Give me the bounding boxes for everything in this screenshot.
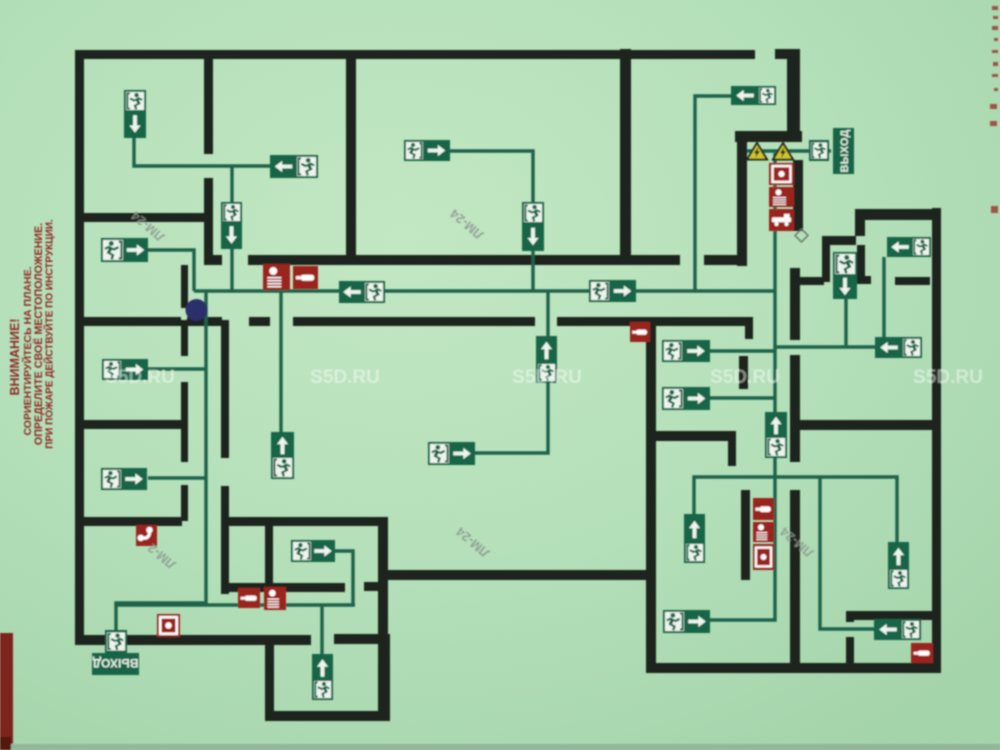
route to sign room3 [148,367,206,370]
evacuation sign left S25 [874,619,921,640]
wall: corridor top wall a [204,255,222,265]
evacuation sign up S6 [536,336,557,383]
wall: room3 bottom wall [80,420,182,429]
route lower right corridor [694,477,897,542]
wall: thin partition x181 b [181,320,188,356]
adjacent plan edge left [0,633,13,750]
wall: wall V2 d [790,490,800,665]
exit door sign top-right [809,140,829,161]
wall: corridor top wall c [704,255,740,265]
wall: corridor right wall lower [221,486,229,594]
wall: lower corridor bottom wall b [364,582,380,591]
wall: thin partition x181 a [181,265,188,308]
wall: wall V2 a [793,160,803,231]
evacuation sign right S14b [102,359,148,380]
wall: corridor right wall upper [221,320,229,458]
wall: bottom room bottom wall [265,711,390,721]
fire extinguisher icon D2 [238,588,260,608]
evacuation sign left S24 [875,337,922,358]
wall: right big wall y420 [796,420,934,430]
wall: corridor top wall b [248,255,680,265]
bottom photo edge [0,744,1000,750]
route bottom-left corridor [116,603,355,606]
wall: room1 right wall lower [204,178,213,265]
fire call point icon D2 [264,587,286,610]
evacuation sign down S3 [522,202,544,251]
you-are-here marker [186,299,208,321]
evacuation sign right S19 [663,610,710,633]
fire extinguisher icon B2 [293,266,318,289]
wall: lower corridor top wall [225,517,385,526]
attention instruction text [8,219,56,449]
route small room sign [335,551,353,605]
route branch x820 [820,477,874,629]
wall: bottom-right room stub lower [846,637,854,664]
route from sign A1 [134,137,272,166]
route branch bottom room [320,605,323,655]
wall: big vertical wall x380 [378,517,388,721]
route upper right sign down [882,257,885,338]
evacuation sign right S13 [589,280,636,302]
evacuation sign left S21 [339,281,385,303]
watermark row [105,367,983,388]
wall: room1 bottom wall [84,213,204,222]
evacuation sign right S12 [404,140,450,161]
evacuation sign right S11 [101,238,148,262]
evacuation sign down S1 [124,90,146,138]
wall: top divider wall x620 [620,49,631,265]
wall: wall V1 b [739,356,748,389]
wall: stair right wall [787,49,800,137]
evacuation sign up S8 [684,514,705,563]
wall: outer bottom-left wall [75,635,311,645]
fire extinguisher icon C4 [753,498,774,520]
wall: top-right room top wall [855,209,941,220]
wall: room1 right wall upper [204,59,213,154]
wall: small room left wall x270 [265,522,273,585]
wall: right room bottom wall y431 [656,431,736,441]
evacuation sign right S14 [101,468,147,490]
wall: bottom room left wall [265,640,274,721]
wall: wall V1 c [741,490,750,580]
wall: thin partition x181 d [181,485,188,521]
evacuation sign up S7 [765,412,787,458]
wall: alcove left wall [822,245,830,282]
wall: outer right wall [932,208,941,673]
route branch x281 [279,292,282,433]
route top-right room [695,96,731,291]
wall: right room wall corner [728,436,736,466]
wall: room4 bottom wall [84,517,182,526]
wall: lower corridor bottom wall a [221,583,345,592]
wall: top divider wall x346 [346,50,356,265]
fire hose reel icon C4 [753,544,774,570]
fire call point icon [263,264,290,290]
warning triangle 1 [747,143,767,160]
wall: outer top wall [75,50,755,59]
fire call point icon C4 [753,522,774,542]
wall: room2 bottom wall [84,317,181,326]
wall: wall V1 a [737,131,747,266]
wall: outer top wall piece right [775,49,791,59]
wall: bottom room right wall [380,634,390,721]
wall: bottom-right room top wall [846,611,934,620]
evacuation sign left S20 [270,155,318,178]
evacuation sign up S10 [312,654,333,700]
wall: alcove bottom-left wall [796,277,824,285]
evacuation sign right S17 [662,340,710,362]
route sign y351 [710,349,775,352]
wall: corridor bottom wall corner [745,317,753,339]
route alcove sign down [844,298,847,347]
wall: wall V2 c [790,355,800,462]
fire hose reel icon D1 [157,614,180,637]
fire phone icon [136,525,157,546]
wall: alcove top wall [822,236,856,245]
fire truck icon A4 [769,209,794,231]
exit label VYHOD bottom-left [92,653,139,675]
wall: corridor bottom wall d [557,317,753,326]
evacuation sign left S23 [887,237,931,257]
wall: alcove right wall [857,245,865,282]
route main corridor [194,289,775,292]
wall: wall V2 b [790,268,800,340]
wall: corridor bottom wall a [187,317,222,326]
wall: corridor bottom wall b [249,317,270,326]
exit door sign bottom-left [105,630,127,653]
evacuation sign right S15 [291,540,335,562]
route branch x232 [230,166,233,291]
evacuation sign right S16 [428,442,475,465]
fire extinguisher icon B3 [630,322,650,342]
route sign y398 [710,396,775,399]
evacuation sign right S18 [662,387,710,410]
evacuation sign up S5 [271,432,294,479]
route from sign room2 [148,250,194,291]
fire extinguisher icon D4 [911,643,933,663]
route to sign room4 [148,476,206,479]
evacuation sign left S22 [731,86,776,105]
wall: top-right connector wall [855,220,865,236]
route right sign y347 [775,345,875,348]
exit label VYHOD top-right [833,128,854,174]
wall: bottom-right room stub upper [846,611,854,622]
wall: right room inner wall y277 [895,277,930,285]
fire call point icon A4 [769,187,794,207]
wall: alcove bottom-right stub [857,276,871,284]
route from sign A2 [450,151,533,291]
evacuation sign down S2 [221,202,242,249]
route central room [475,381,548,453]
wall: stair bottom wall [735,131,802,142]
evacuation sign up S9 [888,542,909,589]
right edge red text fragments [990,6,998,213]
wall: central right wall x646 [646,320,656,663]
wall: right bottom wall [646,663,941,673]
door diamond symbol [795,229,808,242]
wall: outer bottom-left wall 2 [334,634,390,644]
evacuation sign down S4 [833,252,857,299]
route main vertical left [116,291,206,631]
warning triangle 2 [773,143,793,160]
route right main vertical [710,153,775,620]
wall: central bottom wall [382,570,646,580]
wall: thin partition x181 c [181,382,188,462]
fire hose reel icon A4 [769,163,794,185]
wall: corridor bottom wall c [293,317,535,326]
route exit top-right [747,149,831,152]
route branch x548 up [546,292,549,337]
wall: outer left wall [75,50,84,644]
